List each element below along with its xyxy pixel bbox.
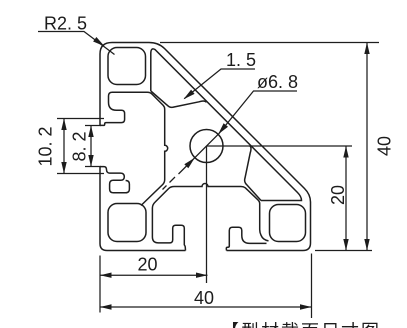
svg-text:8. 2: 8. 2 (70, 131, 90, 161)
svg-text:【型材截面尺寸图: 【型材截面尺寸图 (221, 322, 381, 328)
svg-text:1. 5: 1. 5 (226, 50, 256, 70)
svg-text:20: 20 (328, 185, 348, 205)
svg-text:40: 40 (194, 288, 214, 308)
svg-text:R2. 5: R2. 5 (44, 14, 87, 34)
svg-text:20: 20 (137, 255, 157, 275)
svg-text:ø6. 8: ø6. 8 (257, 72, 298, 92)
svg-text:40: 40 (375, 136, 395, 156)
svg-text:10. 2: 10. 2 (36, 126, 56, 166)
